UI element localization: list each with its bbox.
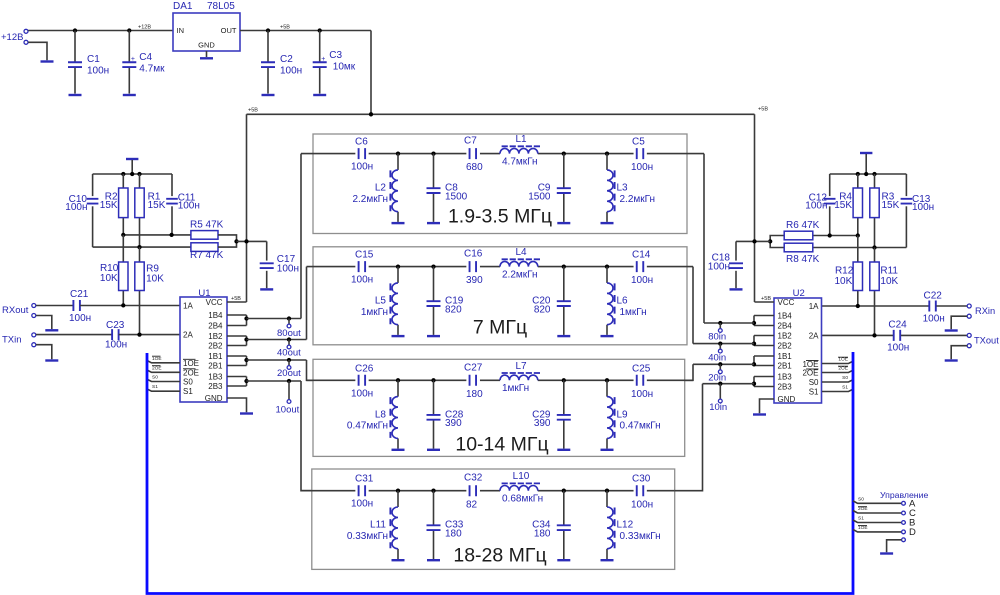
resistor R2 leads	[122, 174, 124, 188]
wire +5B left drop to U1 VCC	[246, 114, 248, 302]
inductor L12 lead	[606, 491, 608, 507]
capacitor C3 (polarized)	[313, 62, 327, 67]
wire 40out stub	[288, 340, 290, 345]
svg-text:1OE: 1OE	[152, 356, 162, 362]
ground DA1	[200, 57, 213, 59]
svg-text:C24: C24	[888, 320, 907, 331]
svg-text:+5В: +5В	[758, 107, 768, 113]
svg-text:1B3: 1B3	[778, 373, 793, 382]
wire 10out feed to filter4	[301, 381, 312, 491]
svg-text:15K: 15K	[100, 200, 118, 211]
wire node-A row	[123, 234, 191, 236]
node 80out terminal	[287, 324, 291, 328]
ground L5	[392, 335, 405, 337]
node TXout terminals	[967, 333, 971, 337]
svg-text:180: 180	[534, 529, 551, 540]
wire DA1 GND lead	[206, 51, 208, 57]
wire filter3 main line	[307, 379, 356, 381]
svg-text:RXin: RXin	[975, 306, 995, 316]
resistor R1	[135, 188, 144, 218]
svg-text:0.47мкГн: 0.47мкГн	[620, 421, 661, 432]
ground C8	[427, 222, 440, 224]
svg-text:C14: C14	[632, 250, 651, 261]
capacitor C21	[73, 300, 80, 311]
node R12 top	[856, 233, 860, 237]
svg-text:S1: S1	[842, 385, 848, 391]
ground C28	[427, 449, 440, 451]
node bracket 4 junction	[244, 379, 248, 383]
ground TXout	[945, 359, 958, 361]
node C9 top	[562, 151, 566, 155]
node +5B bias tie	[244, 239, 248, 243]
capacitor C2	[261, 62, 275, 67]
ground L11	[392, 559, 405, 561]
wire U1 pin pair bracket 1	[227, 314, 247, 316]
node 10in terminal	[718, 399, 722, 403]
svg-text:C7: C7	[464, 136, 477, 147]
node TXin terminals	[32, 333, 36, 337]
node R6/R8 junction	[768, 239, 772, 243]
node R10 bottom	[121, 303, 125, 307]
svg-text:100н: 100н	[351, 388, 373, 399]
ground C9	[557, 222, 570, 224]
wire +5B right drop to U2 VCC	[754, 114, 756, 302]
svg-text:R11: R11	[880, 266, 898, 277]
svg-text:4.7мк: 4.7мк	[139, 64, 165, 75]
wire control tap 1OE	[853, 529, 902, 532]
ground L6	[601, 335, 614, 337]
node R9 top	[137, 245, 141, 249]
capacitor C34	[557, 525, 571, 530]
ground RXin	[945, 329, 958, 331]
wire +12B feed to DA1 IN	[28, 30, 173, 32]
wire C10 branch lower	[92, 206, 94, 247]
node C1 junction	[73, 28, 77, 32]
svg-text:C32: C32	[464, 473, 483, 484]
svg-text:+5В: +5В	[761, 296, 771, 302]
svg-text:+5В: +5В	[231, 296, 241, 302]
svg-text:180: 180	[445, 529, 462, 540]
svg-text:+: +	[321, 56, 325, 63]
svg-text:C15: C15	[355, 250, 374, 261]
svg-text:L9: L9	[617, 409, 629, 420]
capacitor C15	[359, 261, 366, 272]
svg-text:2OE: 2OE	[183, 368, 199, 377]
wire C18 branch upper	[735, 241, 737, 260]
ground C18	[730, 288, 743, 290]
svg-text:L8: L8	[375, 409, 387, 420]
wire 20in stub	[719, 364, 721, 369]
capacitor C20	[557, 301, 571, 306]
wire TXin to C23	[36, 334, 112, 336]
capacitor C20 leads	[563, 267, 565, 301]
node bracket 1 junction	[244, 316, 248, 320]
node bias gnd-lead	[130, 172, 134, 176]
wire node-B row	[93, 246, 191, 248]
wire control bus	[147, 352, 853, 594]
ground C4	[123, 94, 136, 96]
svg-text:100н: 100н	[277, 264, 299, 275]
node C19 top	[431, 264, 435, 268]
wire C21 to U1 pin 1A	[80, 305, 180, 307]
svg-text:C2: C2	[280, 54, 293, 65]
svg-text:390: 390	[534, 418, 551, 429]
svg-text:7 МГц: 7 МГц	[473, 317, 527, 339]
wire C24 to TXout	[901, 334, 967, 336]
svg-text:GND: GND	[205, 394, 223, 403]
capacitor C1 leads	[74, 31, 76, 63]
svg-text:2OE: 2OE	[152, 365, 162, 371]
node right bias gnd-lead	[864, 172, 868, 176]
wire RXout gnd stub	[36, 316, 52, 330]
svg-text:2OE: 2OE	[802, 369, 818, 378]
wire row 80out	[247, 318, 302, 320]
svg-text:80in: 80in	[708, 331, 726, 342]
resistor R7	[191, 243, 218, 252]
svg-text:1B2: 1B2	[208, 332, 223, 341]
svg-text:4.7мкГн: 4.7мкГн	[502, 156, 538, 167]
svg-text:C31: C31	[355, 474, 374, 485]
capacitor C26	[359, 375, 366, 386]
wire 10out stub	[288, 381, 290, 399]
svg-text:1B3: 1B3	[208, 373, 223, 382]
svg-text:10K: 10K	[880, 276, 898, 287]
svg-text:100н: 100н	[178, 201, 200, 212]
wire 10in stub	[719, 384, 721, 399]
inductor L6	[607, 283, 613, 325]
svg-text:R12: R12	[835, 266, 854, 277]
svg-text:2B4: 2B4	[208, 322, 223, 331]
svg-text:820: 820	[445, 304, 462, 315]
inductor L11 lead	[397, 491, 399, 507]
inductor L1	[500, 148, 538, 153]
node U2 bracket 4 junction	[752, 382, 756, 386]
svg-text:1мкГн: 1мкГн	[361, 307, 388, 318]
power bar left bias	[126, 158, 138, 160]
svg-text:GND: GND	[198, 41, 215, 50]
svg-text:2.2мкГн: 2.2мкГн	[352, 194, 388, 205]
capacitor C12	[824, 199, 836, 204]
wire bus tap S1 to U1	[147, 389, 180, 391]
node L8 top	[396, 378, 400, 382]
wire filter4 main line	[301, 490, 355, 492]
node rail junction	[369, 112, 373, 116]
wire row 10in	[703, 383, 755, 385]
wire U1 GND stub	[227, 398, 247, 412]
svg-text:10-14 МГц: 10-14 МГц	[455, 434, 548, 456]
node L9 top	[605, 378, 609, 382]
svg-text:+: +	[131, 56, 135, 63]
svg-text:C23: C23	[106, 320, 125, 331]
svg-text:1.9-3.5 МГц: 1.9-3.5 МГц	[448, 206, 552, 228]
wire bias to C18	[736, 240, 770, 242]
wire 80out feed to filter1	[300, 154, 302, 319]
capacitor C4 leads	[128, 31, 130, 63]
svg-text:100н: 100н	[69, 313, 91, 324]
svg-text:100н: 100н	[351, 499, 373, 510]
capacitor C2 leads	[267, 31, 269, 63]
svg-text:C1: C1	[87, 54, 100, 65]
wire C17 branch lower	[266, 271, 268, 288]
inductor L7	[500, 375, 538, 380]
node 40out terminal	[287, 345, 291, 349]
svg-text:1A: 1A	[183, 302, 193, 311]
op-amp U2 body	[774, 298, 822, 403]
svg-text:10K: 10K	[100, 273, 118, 284]
node 80in terminal	[718, 329, 722, 333]
svg-text:C16: C16	[464, 249, 483, 260]
node C34 top	[562, 489, 566, 493]
node +5B bias tie right	[752, 239, 756, 243]
capacitor C24	[894, 330, 901, 341]
wire bus tap 1OE to U1	[147, 361, 180, 363]
node L3 top	[605, 151, 609, 155]
wire 80in stub	[719, 323, 721, 328]
ground C20	[557, 335, 570, 337]
svg-text:Управление: Управление	[880, 490, 928, 500]
ground C29	[557, 449, 570, 451]
wire U2 1A to C22	[822, 305, 929, 307]
wire bus tap 1OE to U2	[822, 361, 853, 363]
capacitor C28 leads	[433, 380, 435, 414]
svg-text:S1: S1	[152, 384, 158, 390]
wire +5B drop to rail	[370, 31, 372, 115]
resistor R1 leads	[139, 174, 141, 188]
svg-text:40in: 40in	[708, 352, 726, 363]
wire U1 pin pair bracket 2	[227, 335, 247, 337]
wire U2 pin pair bracket 2	[754, 335, 774, 337]
wire C17 branch upper	[266, 241, 268, 260]
node C11 bottom	[169, 233, 173, 237]
wire bias top rail	[93, 173, 172, 175]
node C3 junction	[318, 28, 322, 32]
svg-text:L7: L7	[515, 361, 527, 372]
svg-text:L3: L3	[617, 183, 629, 194]
wire C22 to RXin	[936, 305, 967, 307]
svg-text:S0: S0	[152, 375, 158, 381]
regulator DA1 78L05 body	[173, 13, 240, 51]
wire control tap 2OE	[853, 511, 902, 514]
capacitor C29 leads	[563, 380, 565, 414]
capacitor C6	[359, 148, 366, 159]
node 10out terminal	[287, 400, 291, 404]
node L6 top	[605, 264, 609, 268]
inductor L5	[392, 283, 398, 325]
svg-text:10out: 10out	[276, 405, 300, 416]
capacitor C13	[901, 199, 913, 204]
svg-text:100н: 100н	[351, 275, 373, 286]
svg-text:L10: L10	[513, 471, 530, 482]
capacitor C33 leads	[433, 491, 435, 525]
node R12 bottom	[856, 304, 860, 308]
capacitor C31	[359, 485, 366, 496]
svg-text:C21: C21	[70, 289, 89, 300]
capacitor C4 (polarized)	[122, 62, 136, 67]
inductor L8 lead	[397, 380, 399, 396]
resistor R9 leads	[139, 247, 141, 262]
wire bus tap S0 to U2	[822, 380, 853, 382]
svg-text:2B3: 2B3	[778, 383, 793, 392]
power bar right bias	[860, 152, 872, 154]
svg-text:820: 820	[534, 304, 551, 315]
node C2 junction	[266, 28, 270, 32]
svg-text:L2: L2	[375, 183, 387, 194]
wire R5 right bend	[218, 235, 237, 242]
svg-text:20in: 20in	[708, 372, 726, 383]
capacitor C10	[87, 199, 99, 204]
svg-text:IN: IN	[177, 26, 185, 35]
node C28 top	[431, 378, 435, 382]
svg-text:1B1: 1B1	[778, 352, 793, 361]
svg-text:C27: C27	[464, 362, 483, 373]
node 80in junction	[718, 321, 722, 325]
svg-text:S0: S0	[183, 378, 193, 387]
svg-text:100н: 100н	[351, 162, 373, 173]
node L12 top	[605, 489, 609, 493]
svg-text:100н: 100н	[87, 66, 109, 77]
wire row 20in	[693, 363, 754, 365]
svg-text:0.33мкГн: 0.33мкГн	[347, 531, 388, 542]
svg-text:100н: 100н	[923, 314, 945, 325]
capacitor C11	[166, 199, 178, 204]
ground C1	[69, 94, 82, 96]
svg-text:100н: 100н	[708, 262, 730, 273]
svg-text:18-28 МГц: 18-28 МГц	[453, 545, 546, 567]
wire row 80in	[704, 322, 754, 324]
svg-text:100н: 100н	[631, 162, 653, 173]
svg-text:L11: L11	[370, 520, 386, 531]
svg-text:1500: 1500	[445, 191, 468, 202]
svg-text:1B2: 1B2	[778, 332, 793, 341]
wire filter4 out to 10in row	[675, 384, 703, 491]
svg-text:R6 47K: R6 47K	[786, 220, 820, 231]
svg-text:1мкГн: 1мкГн	[620, 307, 647, 318]
resistor R2	[119, 188, 128, 218]
svg-text:10in: 10in	[709, 402, 727, 413]
wire U1 pin pair bracket 3	[227, 355, 247, 357]
wire 40in stub	[719, 344, 721, 349]
wire row 10out	[247, 380, 302, 382]
resistor R3	[870, 188, 879, 218]
svg-text:1OE: 1OE	[183, 359, 199, 368]
node L2 top	[396, 151, 400, 155]
capacitor C17	[260, 263, 274, 268]
svg-text:0.33мкГн: 0.33мкГн	[620, 531, 661, 542]
wire 40out feed to filter2	[306, 267, 308, 340]
node R11 top	[872, 245, 876, 249]
svg-text:+5В: +5В	[248, 108, 258, 114]
node R11 bottom	[872, 333, 876, 337]
capacitor C14	[637, 261, 644, 272]
wire row 20out	[247, 359, 307, 361]
svg-text:82: 82	[466, 499, 478, 510]
wire bus tap 2OE to U2	[822, 370, 853, 372]
node 20in junction	[718, 362, 722, 366]
wire filter1 main line	[301, 153, 355, 155]
node R2 bottom	[121, 233, 125, 237]
node L5 top	[396, 264, 400, 268]
filter box 4	[312, 469, 675, 569]
wire U2 pin pair bracket 1	[754, 315, 774, 317]
inductor L6 lead	[606, 267, 608, 283]
capacitor C16	[470, 261, 477, 272]
svg-text:C3: C3	[329, 50, 342, 61]
svg-text:2B2: 2B2	[208, 342, 223, 351]
wire filter1 out to 80in row	[703, 154, 705, 323]
svg-text:100н: 100н	[65, 202, 87, 213]
svg-text:100н: 100н	[280, 66, 302, 77]
node R5/R7 junction	[234, 239, 238, 243]
node R9 bottom	[137, 332, 141, 336]
svg-text:2.2мкГн: 2.2мкГн	[502, 269, 538, 280]
svg-text:L12: L12	[617, 520, 634, 531]
svg-text:100н: 100н	[805, 201, 827, 212]
svg-text:100н: 100н	[631, 275, 653, 286]
inductor L8	[392, 397, 398, 439]
wire +12B lower terminal to ground	[28, 42, 47, 60]
node 40in terminal	[718, 349, 722, 353]
svg-text:+5В: +5В	[280, 25, 290, 31]
inductor L3 lead	[606, 154, 608, 170]
svg-text:100н: 100н	[887, 343, 909, 354]
ground L9	[601, 449, 614, 451]
wire TXin gnd stub	[36, 345, 52, 360]
capacitor C29	[557, 415, 571, 420]
svg-text:RXout: RXout	[2, 305, 29, 316]
ground header	[880, 552, 893, 554]
wire C13 branch lower	[905, 206, 907, 247]
svg-text:2B1: 2B1	[778, 362, 793, 371]
svg-text:1мкГн: 1мкГн	[502, 383, 529, 394]
resistor R8	[784, 243, 813, 252]
ground U1	[240, 412, 253, 414]
svg-text:40out: 40out	[277, 348, 301, 359]
svg-text:GND: GND	[778, 395, 796, 404]
filter box 2	[313, 247, 687, 345]
wire control tap S1	[853, 520, 902, 523]
node U2 bracket 3 junction	[752, 362, 756, 366]
capacitor C9 leads	[563, 154, 565, 188]
node header ground pin	[902, 538, 906, 542]
node +12B input terminals	[24, 29, 28, 33]
wire bus tap S1 to U2	[822, 389, 853, 391]
resistor R4 leads	[857, 174, 859, 188]
capacitor C8	[427, 188, 441, 193]
svg-text:C4: C4	[139, 52, 152, 63]
node C4 junction	[127, 28, 131, 32]
svg-text:+12B: +12B	[1, 32, 23, 43]
wire header ground	[887, 540, 902, 553]
svg-text:2B2: 2B2	[778, 342, 793, 351]
wire U2 pin pair bracket 3	[754, 355, 774, 357]
svg-text:15K: 15K	[834, 200, 852, 211]
svg-text:2B1: 2B1	[208, 362, 223, 371]
wire C12 branch lower	[829, 206, 831, 235]
svg-text:390: 390	[466, 275, 483, 286]
ground (input)	[41, 60, 54, 62]
node RXout terminals	[32, 304, 36, 308]
wire TXout gnd stub	[951, 346, 967, 360]
ground C3	[313, 94, 326, 96]
svg-text:L4: L4	[515, 247, 527, 258]
resistor R10 leads	[122, 235, 124, 262]
ground TXin	[45, 359, 58, 361]
svg-text:390: 390	[445, 418, 462, 429]
wire power bar lead	[131, 160, 133, 174]
svg-text:S1: S1	[809, 388, 819, 397]
svg-text:15K: 15K	[882, 200, 900, 211]
wire filter2 out to 40in row	[692, 267, 694, 344]
